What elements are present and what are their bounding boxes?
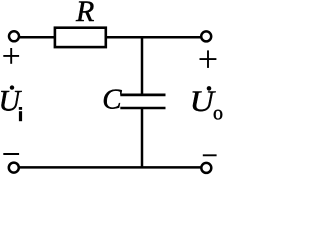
node bottom junction bbox=[141, 109, 144, 168]
plus polarity input bbox=[3, 48, 19, 64]
terminal input top bbox=[9, 31, 19, 41]
wire top rail from input terminal to output terminal bbox=[19, 36, 201, 39]
svg-text:R: R bbox=[75, 0, 94, 28]
svg-text:C: C bbox=[102, 84, 122, 116]
minus polarity input bbox=[3, 153, 19, 155]
plus polarity output bbox=[200, 50, 217, 68]
resistor R bbox=[55, 28, 106, 47]
svg-text:o: o bbox=[213, 103, 223, 125]
capacitor C plate top bbox=[120, 94, 165, 97]
terminal input bottom bbox=[9, 163, 19, 173]
minus polarity output bbox=[203, 154, 217, 156]
wire bottom rail from input terminal to output terminal bbox=[19, 166, 201, 169]
label Uo phasor dot bbox=[207, 86, 212, 91]
terminal output top bbox=[201, 31, 211, 41]
terminal output bottom bbox=[201, 163, 211, 173]
node top junction bbox=[141, 37, 144, 94]
capacitor C plate bottom bbox=[120, 107, 165, 110]
label Ui phasor dot bbox=[10, 85, 14, 89]
